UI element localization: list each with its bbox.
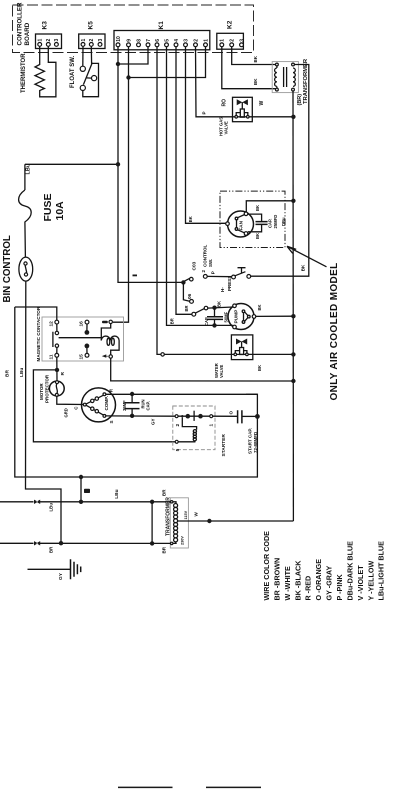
svg-text:COMP.: COMP. xyxy=(104,396,109,410)
svg-text:4: 4 xyxy=(174,39,180,42)
svg-text:BK: BK xyxy=(255,233,260,239)
svg-text:BK: BK xyxy=(257,365,262,371)
svg-text:1: 1 xyxy=(203,39,209,42)
svg-text:S: S xyxy=(109,420,114,423)
svg-text:10: 10 xyxy=(116,36,122,42)
svg-text:O -ORANGE: O -ORANGE xyxy=(314,559,323,601)
svg-text:BK: BK xyxy=(255,205,260,211)
svg-text:R -RED: R -RED xyxy=(304,576,313,601)
svg-text:3: 3 xyxy=(98,39,104,42)
svg-text:MOTOR: MOTOR xyxy=(39,383,44,400)
svg-text:BR: BR xyxy=(49,546,54,553)
svg-text:W -WHITE: W -WHITE xyxy=(283,566,292,601)
svg-text:ONLY AIR COOLED MODEL: ONLY AIR COOLED MODEL xyxy=(329,262,340,400)
svg-text:PROTECTOR: PROTECTOR xyxy=(45,374,50,403)
svg-text:72-88MFD: 72-88MFD xyxy=(253,431,258,453)
svg-text:Y -YELLOW: Y -YELLOW xyxy=(366,560,375,600)
svg-text:06: 06 xyxy=(187,293,193,299)
svg-text:LBu: LBu xyxy=(49,503,54,512)
svg-text:P: P xyxy=(201,111,206,114)
svg-text:LBu: LBu xyxy=(19,368,25,377)
svg-text:12: 12 xyxy=(49,321,55,327)
svg-text:O: O xyxy=(228,411,233,415)
svg-text:PRESS: PRESS xyxy=(227,276,232,291)
svg-text:LBu: LBu xyxy=(114,489,120,498)
svg-text:8: 8 xyxy=(136,39,142,42)
svg-text:BK: BK xyxy=(253,78,258,85)
svg-text:RO: RO xyxy=(222,99,228,107)
svg-text:DBu-DARK BLUE: DBu-DARK BLUE xyxy=(345,541,354,601)
svg-text:BR: BR xyxy=(170,318,175,324)
svg-text:BR -BROWN: BR -BROWN xyxy=(272,558,281,601)
svg-text:BR: BR xyxy=(162,489,167,496)
svg-text:2: 2 xyxy=(230,39,236,42)
svg-text:BR: BR xyxy=(184,305,189,311)
svg-text:3: 3 xyxy=(54,39,60,42)
svg-text:1: 1 xyxy=(81,39,87,42)
svg-text:K3: K3 xyxy=(42,21,49,30)
svg-text:9: 9 xyxy=(126,39,132,42)
svg-text:K5: K5 xyxy=(88,21,95,30)
svg-text:BK: BK xyxy=(217,301,222,307)
svg-text:BOARD: BOARD xyxy=(24,22,31,45)
svg-text:LBu: LBu xyxy=(26,164,32,175)
svg-text:5: 5 xyxy=(164,39,170,42)
svg-text:W: W xyxy=(259,101,265,106)
svg-text:H-: H- xyxy=(220,287,225,292)
svg-text:THERMISTOR: THERMISTOR xyxy=(21,53,27,93)
svg-text:5: 5 xyxy=(175,448,181,451)
svg-text:3: 3 xyxy=(183,39,189,42)
svg-text:25MFD: 25MFD xyxy=(273,215,278,229)
svg-text:CONTROLLER: CONTROLLER xyxy=(17,2,24,45)
svg-text:BK: BK xyxy=(301,264,306,271)
svg-text:FUSE: FUSE xyxy=(42,193,54,221)
svg-text:TRANSFORMER: TRANSFORMER xyxy=(165,497,171,536)
svg-text:BK: BK xyxy=(253,55,258,62)
svg-text:10A: 10A xyxy=(54,201,66,221)
svg-text:3: 3 xyxy=(239,39,245,42)
svg-text:2: 2 xyxy=(89,39,95,42)
svg-text:R: R xyxy=(60,372,66,376)
svg-text:P: P xyxy=(210,271,215,274)
svg-text:C03: C03 xyxy=(192,261,198,270)
svg-text:FAN: FAN xyxy=(238,220,244,230)
svg-text:CAP.: CAP. xyxy=(268,219,273,228)
svg-text:GRD: GRD xyxy=(64,408,69,417)
svg-text:K1: K1 xyxy=(158,21,165,30)
svg-text:CAP.: CAP. xyxy=(204,317,209,326)
svg-text:15: 15 xyxy=(79,354,85,360)
svg-text:STARTER: STARTER xyxy=(221,434,227,457)
svg-text:BR: BR xyxy=(162,546,167,553)
svg-text:MAGNETIC CONTACTOR: MAGNETIC CONTACTOR xyxy=(36,306,41,361)
svg-text:BIN CONTROL: BIN CONTROL xyxy=(2,235,13,302)
svg-text:BR: BR xyxy=(5,370,11,377)
svg-text:GY -GRAY: GY -GRAY xyxy=(325,566,334,601)
svg-text:1: 1 xyxy=(209,424,215,427)
svg-text:K2: K2 xyxy=(227,20,234,29)
svg-text:BK: BK xyxy=(188,216,193,222)
svg-text:DBu: DBu xyxy=(281,217,286,226)
svg-text:35MF: 35MF xyxy=(122,400,127,411)
svg-text:CAP.: CAP. xyxy=(145,401,150,410)
svg-text:BK: BK xyxy=(257,304,262,310)
svg-text:2: 2 xyxy=(46,39,52,42)
svg-text:2: 2 xyxy=(193,39,199,42)
svg-text:CONTROL: CONTROL xyxy=(203,245,208,267)
svg-text:GY: GY xyxy=(151,418,156,425)
svg-text:11: 11 xyxy=(49,354,55,359)
svg-text:PUMP: PUMP xyxy=(234,309,240,324)
svg-text:FLOAT SW.: FLOAT SW. xyxy=(70,55,76,88)
svg-text:7: 7 xyxy=(146,39,152,42)
svg-text:1: 1 xyxy=(38,39,44,42)
svg-text:LBu-LIGHT BLUE: LBu-LIGHT BLUE xyxy=(377,541,386,601)
svg-text:230V: 230V xyxy=(181,536,185,545)
svg-text:GY: GY xyxy=(58,572,64,580)
svg-text:VALVE: VALVE xyxy=(219,364,224,378)
svg-text:6: 6 xyxy=(155,39,161,42)
svg-text:BK -BLACK: BK -BLACK xyxy=(293,560,302,601)
svg-text:V -VIOLET: V -VIOLET xyxy=(356,565,365,601)
svg-text:16: 16 xyxy=(79,321,85,327)
svg-text:1: 1 xyxy=(220,39,226,42)
svg-text:WIRE COLOR CODE: WIRE COLOR CODE xyxy=(262,531,271,601)
svg-text:P -PINK: P -PINK xyxy=(335,573,344,600)
svg-text:115V: 115V xyxy=(184,510,188,519)
svg-text:START CAP.: START CAP. xyxy=(248,428,253,454)
svg-text:VALVE: VALVE xyxy=(224,121,229,135)
svg-text:2: 2 xyxy=(175,424,181,427)
svg-text:SW.: SW. xyxy=(208,259,213,267)
